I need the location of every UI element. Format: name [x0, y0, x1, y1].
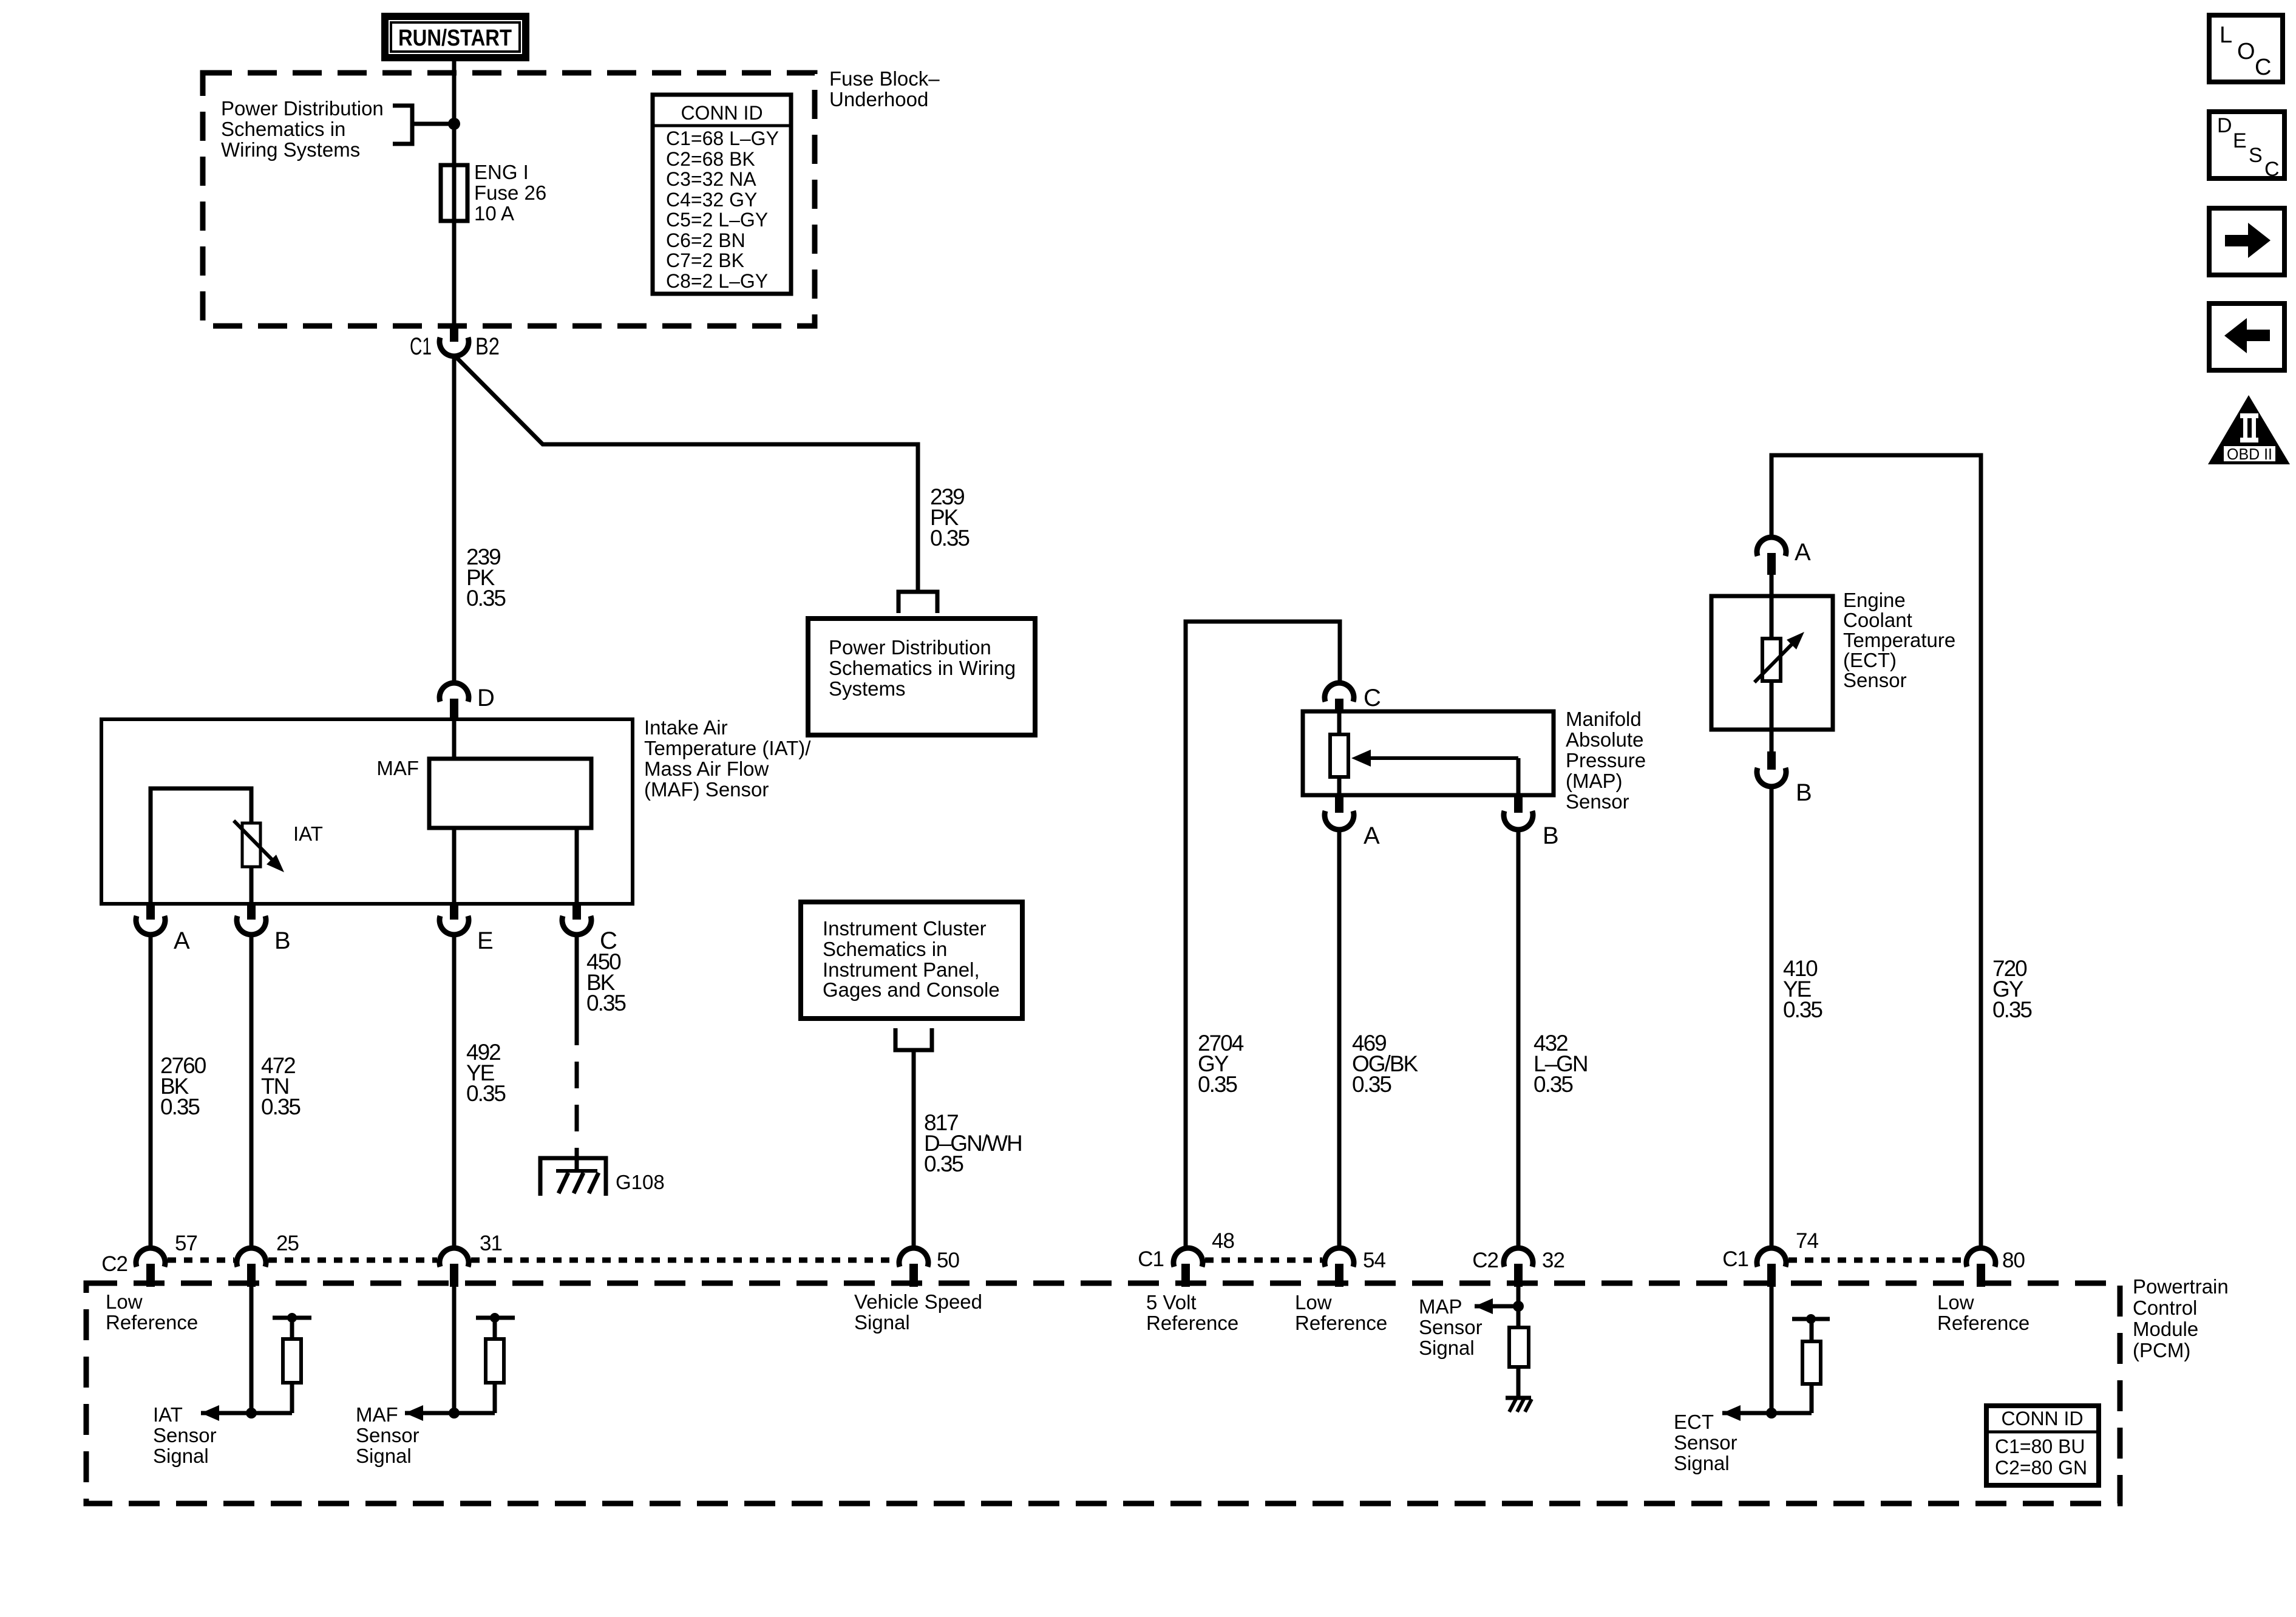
svg-text:IAT: IAT [293, 822, 323, 845]
svg-text:A: A [174, 927, 190, 954]
svg-text:Intake Air: Intake Air [644, 716, 728, 739]
label Low Reference (pin 57) [106, 1290, 198, 1334]
svg-text:B: B [1796, 779, 1812, 806]
label 239 PK 0.35 (main wire) [466, 544, 506, 611]
connector C at MAP sensor [1325, 683, 1381, 711]
svg-text:C1: C1 [410, 333, 432, 360]
svg-text:0.35: 0.35 [1352, 1072, 1391, 1097]
IAT loop wires [151, 788, 251, 904]
connector A at ECT sensor [1757, 537, 1811, 596]
svg-text:Temperature: Temperature [1843, 629, 1955, 651]
svg-text:0.35: 0.35 [930, 526, 970, 551]
pin 54 connector [1325, 1248, 1385, 1287]
svg-text:G108: G108 [616, 1171, 665, 1193]
MAP sensor signal circuit inside PCM [1475, 1287, 1529, 1397]
svg-text:Low: Low [106, 1290, 143, 1313]
svg-text:MAF: MAF [376, 757, 419, 779]
svg-text:O: O [2237, 39, 2255, 64]
wire 2704 GY 5 volt reference loop [1186, 622, 1340, 1249]
svg-text:ENG I: ENG I [474, 161, 529, 183]
svg-text:0.35: 0.35 [1783, 997, 1822, 1022]
pin 48 connector [1138, 1229, 1234, 1287]
svg-text:0.35: 0.35 [160, 1094, 200, 1119]
label Intake Air Temperature (IAT)/ Mass Air Flow (MAF) Sensor [644, 716, 811, 801]
fuse block underhood dashed box [203, 73, 815, 326]
label Low Reference (pin 54) [1295, 1291, 1387, 1334]
svg-text:MAF: MAF [356, 1403, 398, 1426]
svg-text:Reference: Reference [1295, 1312, 1387, 1334]
label Fuse Block-Underhood [829, 67, 940, 110]
wire 469 OG/BK (MAP A to pin 54) [1337, 829, 1342, 1249]
wire 817 D-GN/WH (to pin 50) [912, 1052, 916, 1249]
svg-text:Signal: Signal [1674, 1452, 1730, 1474]
svg-text:Control: Control [2133, 1297, 2197, 1319]
svg-text:Sensor: Sensor [1674, 1431, 1737, 1454]
wire branch 239 PK to power distribution [454, 355, 918, 590]
connector B at sensor [237, 904, 291, 954]
svg-text:Reference: Reference [1937, 1312, 2029, 1334]
svg-text:48: 48 [1212, 1229, 1234, 1253]
svg-text:Mass Air Flow: Mass Air Flow [644, 758, 769, 780]
box power distribution schematics in wiring systems [808, 619, 1035, 735]
svg-text:Signal: Signal [854, 1311, 910, 1334]
label 469 OG/BK 0.35 [1352, 1031, 1419, 1097]
icon back arrow box [2209, 303, 2284, 370]
svg-text:D: D [2217, 114, 2232, 137]
svg-text:Reference: Reference [1146, 1312, 1238, 1334]
svg-text:C5=2 L–GY: C5=2 L–GY [666, 209, 768, 231]
pin 31 connector [440, 1232, 502, 1287]
svg-text:B2: B2 [475, 333, 500, 360]
svg-text:CONN ID: CONN ID [2001, 1408, 2083, 1429]
CONN ID table (fuse block) [653, 95, 791, 294]
ground symbol inside PCM (MAP signal) [1506, 1398, 1532, 1412]
label 2704 GY 0.35 [1198, 1031, 1244, 1097]
svg-text:C: C [1364, 685, 1381, 711]
svg-text:0.35: 0.35 [586, 991, 626, 1015]
IAT sensor signal circuit inside PCM [201, 1287, 311, 1421]
CONN ID table (PCM) [1986, 1406, 2099, 1485]
svg-text:S: S [2249, 144, 2263, 167]
connector B at ECT sensor [1757, 730, 1812, 806]
label MAF Sensor Signal [356, 1403, 419, 1467]
svg-text:10 A: 10 A [474, 202, 514, 225]
svg-text:0.35: 0.35 [1992, 997, 2032, 1022]
svg-text:Module: Module [2133, 1318, 2198, 1340]
svg-text:Schematics in: Schematics in [221, 118, 345, 140]
svg-text:C6=2 BN: C6=2 BN [666, 229, 746, 251]
pin 50 connector [899, 1248, 959, 1287]
svg-text:0.35: 0.35 [924, 1151, 963, 1176]
svg-text:C1=68 L–GY: C1=68 L–GY [666, 127, 779, 149]
label 450 BK 0.35 [586, 949, 626, 1015]
PCM connector dotted lines [168, 1258, 1964, 1263]
icon OBD II triangle [2208, 395, 2290, 464]
wire 239 PK main vertical [452, 355, 457, 684]
svg-text:Power Distribution: Power Distribution [829, 636, 991, 659]
svg-text:A: A [1795, 539, 1811, 566]
svg-text:IAT: IAT [153, 1403, 183, 1426]
label 239 PK 0.35 (branch) [930, 484, 970, 551]
label 817 D-GN/WH 0.35 [924, 1110, 1022, 1176]
svg-text:Vehicle Speed: Vehicle Speed [854, 1290, 982, 1313]
label Low Reference (pin 80) [1937, 1291, 2029, 1334]
svg-text:80: 80 [2002, 1249, 2025, 1272]
svg-text:C1: C1 [1138, 1247, 1164, 1271]
svg-text:74: 74 [1796, 1229, 1818, 1253]
svg-text:Absolute: Absolute [1566, 728, 1643, 751]
svg-text:Sensor: Sensor [1566, 790, 1629, 813]
svg-text:Signal: Signal [1419, 1337, 1475, 1359]
svg-text:(ECT): (ECT) [1843, 649, 1897, 671]
svg-text:Gages and Console: Gages and Console [823, 978, 1000, 1001]
svg-text:ECT: ECT [1674, 1411, 1714, 1433]
wire RUN/START to fuse [452, 61, 457, 165]
wire D into MAF element [452, 719, 457, 759]
label 472 TN 0.35 [261, 1053, 301, 1119]
IAT variable-resistor arrow [234, 821, 284, 872]
resistor IAT thermistor [242, 823, 260, 867]
svg-text:Sensor: Sensor [1419, 1316, 1483, 1338]
connector D [440, 683, 495, 719]
box MAP sensor [1303, 711, 1554, 795]
pin 74 connector [1722, 1229, 1818, 1287]
fuse ENG I Fuse 26 10 A [441, 161, 546, 225]
svg-text:(MAP): (MAP) [1566, 770, 1623, 792]
svg-text:Fuse 26: Fuse 26 [474, 181, 546, 204]
svg-text:Manifold: Manifold [1566, 708, 1642, 730]
svg-text:C: C [2264, 158, 2280, 181]
icon LOC box [2209, 15, 2283, 82]
svg-text:0.35: 0.35 [261, 1094, 301, 1119]
wire 2760 BK (A to pin 57) [149, 934, 153, 1249]
svg-text:Power Distribution: Power Distribution [221, 97, 384, 120]
svg-text:Low: Low [1295, 1291, 1332, 1314]
svg-text:Reference: Reference [106, 1311, 198, 1334]
svg-text:Fuse Block–: Fuse Block– [829, 67, 940, 90]
svg-text:Underhood: Underhood [829, 88, 928, 110]
connector C at sensor [562, 904, 617, 954]
wire 432 L-GN (MAP B to pin 32) [1517, 829, 1521, 1249]
MAF sensor signal circuit inside PCM [405, 1287, 515, 1421]
svg-text:Sensor: Sensor [356, 1424, 419, 1446]
wires E and C inside sensor box [452, 828, 457, 904]
svg-text:E: E [477, 927, 494, 954]
connector C1 B2 at fuse block [410, 326, 500, 360]
label 720 GY 0.35 [1992, 956, 2032, 1022]
svg-text:Sensor: Sensor [153, 1424, 217, 1446]
svg-text:A: A [1364, 822, 1380, 849]
pin 32 connector [1472, 1248, 1564, 1287]
svg-text:MAP: MAP [1419, 1295, 1462, 1318]
svg-text:C3=32 NA: C3=32 NA [666, 168, 756, 190]
svg-text:C: C [2255, 55, 2271, 80]
pin 80 connector [1966, 1248, 2025, 1287]
wire 492 YE (E to pin 31) [452, 934, 457, 1249]
label 432 L-GN 0.35 [1533, 1031, 1588, 1097]
svg-text:54: 54 [1363, 1249, 1385, 1272]
label 2760 BK 0.35 [160, 1053, 206, 1119]
svg-text:0.35: 0.35 [1198, 1072, 1237, 1097]
svg-text:(PCM): (PCM) [2133, 1339, 2190, 1361]
svg-text:C2=68 BK: C2=68 BK [666, 148, 755, 170]
svg-text:C2: C2 [101, 1252, 127, 1276]
label Vehicle Speed Signal (pin 50) [854, 1290, 982, 1334]
svg-text:B: B [274, 927, 291, 954]
svg-text:25: 25 [276, 1232, 299, 1255]
svg-text:RUN/START: RUN/START [398, 25, 512, 51]
svg-text:E: E [2233, 129, 2247, 152]
svg-text:C2=80 GN: C2=80 GN [1995, 1457, 2087, 1479]
svg-text:32: 32 [1542, 1249, 1564, 1272]
svg-text:0.35: 0.35 [466, 1081, 506, 1106]
svg-text:Schematics in: Schematics in [823, 938, 947, 960]
wire 472 TN (B to pin 25) [250, 934, 254, 1249]
MAP wiper arrow [1351, 750, 1518, 795]
svg-text:57: 57 [175, 1232, 197, 1255]
svg-text:Signal: Signal [153, 1445, 209, 1467]
ECT sensor signal circuit inside PCM [1722, 1287, 1830, 1421]
svg-text:Signal: Signal [356, 1445, 412, 1467]
svg-text:Engine: Engine [1843, 589, 1906, 611]
svg-text:C1=80 BU: C1=80 BU [1995, 1436, 2085, 1457]
bracket above power distribution box [898, 592, 937, 613]
svg-text:5 Volt: 5 Volt [1146, 1291, 1197, 1314]
svg-text:Low: Low [1937, 1291, 1974, 1314]
svg-text:Wiring Systems: Wiring Systems [221, 138, 360, 161]
connector E at sensor [440, 904, 494, 954]
svg-text:C4=32 GY: C4=32 GY [666, 189, 757, 211]
bracket to power distribution note [393, 106, 454, 144]
label ECT Sensor Signal [1674, 1411, 1737, 1474]
label 5 Volt Reference (pin 48) [1146, 1291, 1238, 1334]
svg-text:0.35: 0.35 [466, 586, 506, 611]
resistor ECT thermistor [1762, 596, 1781, 730]
svg-text:B: B [1543, 822, 1559, 849]
label IAT Sensor Signal [153, 1403, 217, 1467]
svg-text:Coolant: Coolant [1843, 609, 1912, 631]
icon forward arrow box [2209, 208, 2284, 275]
svg-text:Pressure: Pressure [1566, 749, 1646, 771]
ECT variable-resistor arrow [1754, 632, 1804, 682]
label 410 YE 0.35 [1783, 956, 1822, 1022]
label Powertrain Control Module (PCM) [2133, 1275, 2229, 1361]
box IAT / MAF sensor [101, 719, 633, 904]
svg-text:Instrument Panel,: Instrument Panel, [823, 958, 980, 981]
svg-text:L: L [2220, 22, 2232, 48]
svg-text:C1: C1 [1722, 1247, 1748, 1271]
svg-text:50: 50 [937, 1249, 959, 1272]
svg-text:Schematics in Wiring: Schematics in Wiring [829, 657, 1016, 679]
svg-text:Systems: Systems [829, 677, 906, 700]
svg-text:CONN ID: CONN ID [681, 102, 763, 124]
svg-text:C7=2 BK: C7=2 BK [666, 249, 744, 271]
connector B at MAP sensor [1504, 795, 1559, 849]
svg-text:C2: C2 [1472, 1249, 1498, 1272]
label Manifold Absolute Pressure (MAP) Sensor [1566, 708, 1646, 813]
bracket below instrument cluster box [895, 1028, 932, 1050]
svg-text:OBD II: OBD II [2227, 445, 2272, 463]
connector A at MAP sensor [1325, 795, 1380, 849]
switch node RUN/START [385, 16, 526, 58]
resistor MAP element [1330, 711, 1348, 795]
svg-text:Powertrain: Powertrain [2133, 1275, 2229, 1298]
svg-text:C8=2 L–GY: C8=2 L–GY [666, 270, 768, 292]
svg-text:0.35: 0.35 [1533, 1072, 1573, 1097]
label Engine Coolant Temperature (ECT) Sensor [1843, 589, 1955, 691]
wire ECT top loop [1771, 455, 1981, 1249]
wire 410 YE (ECT B to pin 74) [1770, 785, 1774, 1249]
pin 57 connector [101, 1232, 197, 1287]
svg-text:Sensor: Sensor [1843, 669, 1907, 691]
svg-text:31: 31 [480, 1232, 502, 1255]
box instrument cluster schematics [801, 902, 1022, 1019]
MAF inner element box [376, 757, 591, 828]
svg-text:Temperature (IAT)/: Temperature (IAT)/ [644, 737, 811, 759]
wire fuse to connector C1 B2 [452, 221, 457, 326]
pin 25 connector [237, 1232, 299, 1287]
svg-text:Instrument Cluster: Instrument Cluster [823, 917, 987, 940]
svg-text:(MAF) Sensor: (MAF) Sensor [644, 778, 769, 801]
junction dot on main wire [448, 118, 460, 130]
label MAP Sensor Signal [1419, 1295, 1483, 1359]
svg-text:D: D [477, 685, 495, 711]
connector A at sensor [136, 904, 190, 954]
box ECT sensor [1711, 596, 1833, 730]
PCM dashed box [86, 1283, 2120, 1503]
icon DESC box [2209, 112, 2284, 181]
wire 450 BK dashed (C to G108) [575, 934, 579, 1170]
note Power Distribution Schematics in Wiring Systems [221, 97, 384, 161]
label 492 YE 0.35 [466, 1040, 506, 1106]
ground G108 [540, 1158, 665, 1196]
